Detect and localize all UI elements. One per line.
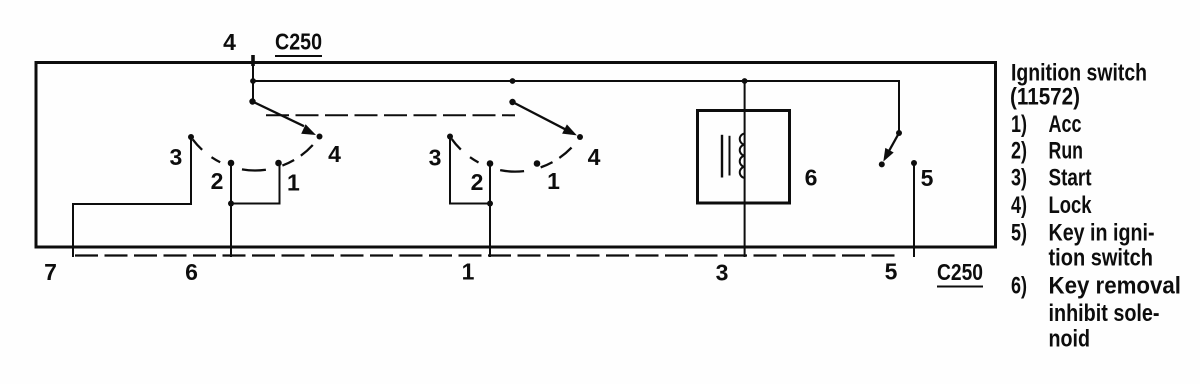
- svg-text:3: 3: [170, 144, 183, 170]
- svg-text:C250: C250: [275, 29, 322, 55]
- svg-text:Acc: Acc: [1049, 111, 1082, 138]
- svg-text:5): 5): [1011, 220, 1027, 247]
- svg-text:inhibit sole-: inhibit sole-: [1049, 300, 1160, 327]
- svg-text:2: 2: [211, 168, 224, 194]
- svg-text:Key removal: Key removal: [1049, 272, 1182, 299]
- svg-text:Ignition switch: Ignition switch: [1011, 59, 1147, 86]
- svg-text:3: 3: [429, 144, 442, 170]
- svg-text:5: 5: [885, 259, 898, 285]
- svg-text:C250: C250: [937, 259, 983, 285]
- svg-text:Run: Run: [1049, 138, 1084, 165]
- svg-text:Lock: Lock: [1049, 192, 1093, 219]
- svg-text:1: 1: [287, 170, 300, 196]
- svg-text:2: 2: [471, 169, 484, 195]
- svg-text:noid: noid: [1049, 326, 1091, 353]
- svg-text:4: 4: [223, 29, 236, 55]
- svg-text:6: 6: [185, 259, 198, 285]
- svg-text:5: 5: [921, 165, 934, 191]
- svg-text:4): 4): [1011, 192, 1027, 219]
- svg-text:7: 7: [44, 259, 57, 285]
- svg-text:6): 6): [1011, 272, 1027, 299]
- svg-text:Key in igni-: Key in igni-: [1049, 220, 1155, 247]
- svg-text:1: 1: [462, 259, 475, 285]
- svg-text:1): 1): [1011, 111, 1027, 138]
- svg-text:tion switch: tion switch: [1049, 245, 1154, 272]
- svg-text:4: 4: [588, 144, 601, 170]
- svg-text:4: 4: [328, 141, 341, 167]
- svg-text:3: 3: [716, 260, 729, 286]
- svg-text:3): 3): [1011, 165, 1027, 192]
- svg-text:6: 6: [805, 165, 818, 191]
- svg-text:Start: Start: [1049, 165, 1092, 192]
- svg-text:2): 2): [1011, 138, 1027, 165]
- svg-text:1: 1: [547, 168, 560, 194]
- svg-text:(11572): (11572): [1010, 84, 1080, 111]
